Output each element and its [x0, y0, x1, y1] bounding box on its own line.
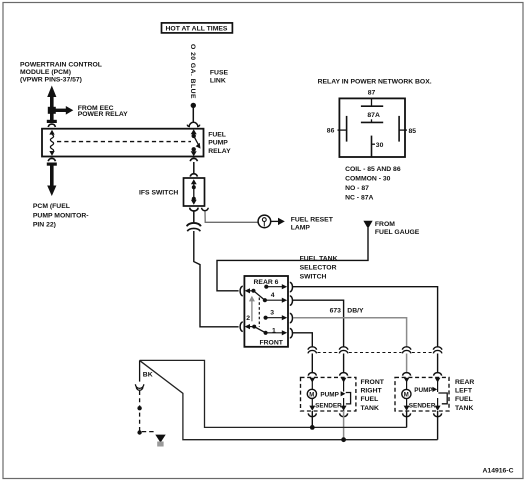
relay switch contact (right, inside box) [191, 129, 201, 156]
wire: pin6 to rear tank sender [293, 287, 438, 347]
svg-text:LAMP: LAMP [291, 225, 311, 232]
wire: branch arrow FROM EEC POWER RELAY [53, 106, 73, 115]
svg-text:RELAY: RELAY [208, 148, 231, 155]
relay coil (left, inside box) [49, 130, 54, 156]
svg-text:PUMP MONITOR-: PUMP MONITOR- [33, 212, 89, 219]
connector: relay output below box [190, 158, 197, 161]
svg-text:COIL - 85 AND 86: COIL - 85 AND 86 [345, 166, 401, 173]
pump motor M (front) [311, 381, 313, 389]
svg-text:1: 1 [272, 328, 276, 335]
svg-text:30: 30 [376, 142, 384, 149]
svg-text:M: M [404, 393, 409, 399]
wire: pin4 to front tank sender [293, 300, 344, 347]
IFS switch S1 box [184, 178, 205, 206]
lamp: fuel reset lamp [258, 215, 271, 228]
wire: pump feed to selector [194, 231, 239, 327]
svg-text:HOT AT ALL TIMES: HOT AT ALL TIMES [166, 26, 228, 33]
pin lines to right edge with arrows [266, 286, 283, 288]
connector: lamp branch tap [202, 208, 209, 211]
svg-text:NO - 87: NO - 87 [345, 185, 369, 192]
svg-text:85: 85 [409, 128, 417, 135]
svg-text:POWER RELAY: POWER RELAY [78, 111, 128, 118]
connectors at tank box top [308, 373, 441, 376]
wire: relay to IFS switch [193, 162, 195, 173]
fuel pump relay K1 box [42, 129, 204, 157]
connector: inline pair on pump feed [187, 223, 201, 226]
ground G1 [155, 435, 165, 443]
svg-text:SELECTOR: SELECTOR [300, 265, 337, 272]
wire: BK ground lead (dashed) [139, 360, 141, 381]
wire: branch to fuel reset lamp [205, 212, 258, 223]
svg-text:SENDER: SENDER [409, 403, 436, 410]
wire: pin3 673 DB/Y to rear tank pump (gray) [293, 318, 407, 347]
blades [252, 289, 256, 293]
svg-text:DB/Y: DB/Y [347, 308, 364, 315]
ground bus 2 (senders, diagonal) [140, 361, 438, 440]
svg-text:FUSE: FUSE [210, 70, 229, 77]
relay pinout legend (power network box) [318, 79, 432, 202]
svg-text:REAR: REAR [455, 379, 474, 386]
from fuel gauge arrow [363, 221, 372, 229]
fuse link F1 [187, 122, 199, 126]
wire: thick arrow to PCM (up) [47, 86, 56, 124]
svg-text:RIGHT: RIGHT [361, 387, 383, 394]
fuel tank selector switch S2 [240, 276, 292, 347]
node: pump ground junction [310, 425, 315, 430]
wire: pin1 to front tank pump [293, 333, 312, 347]
sender (front) [341, 391, 346, 396]
wire: junction to fuse link [192, 105, 194, 122]
connector: PCM monitor lead below relay box [48, 158, 55, 161]
svg-text:FUEL: FUEL [361, 396, 379, 403]
pump motor M (rear) [406, 381, 408, 389]
svg-text:(VPWR PINS-37/57): (VPWR PINS-37/57) [20, 77, 82, 84]
svg-text:IFS SWITCH: IFS SWITCH [139, 189, 178, 196]
connectors at tank box bottom [308, 413, 441, 416]
rear left fuel tank box [395, 377, 449, 411]
svg-text:FUEL TANK: FUEL TANK [300, 256, 338, 263]
relay internal dashed link [57, 141, 191, 143]
svg-text:87A: 87A [367, 112, 380, 119]
svg-text:COMMON - 30: COMMON - 30 [345, 176, 391, 183]
svg-text:RELAY IN POWER NETWORK BOX.: RELAY IN POWER NETWORK BOX. [318, 79, 432, 86]
mechanical dashed link [258, 298, 260, 328]
wire+arrow after lamp [271, 220, 279, 222]
svg-text:POWERTRAIN CONTROL: POWERTRAIN CONTROL [20, 62, 102, 69]
sender (rear) [432, 387, 437, 392]
connector: PCM lead at relay box top [47, 120, 57, 123]
svg-text:SWITCH: SWITCH [300, 274, 327, 281]
svg-text:FRONT: FRONT [260, 340, 284, 347]
svg-text:NC - 87A: NC - 87A [345, 195, 373, 202]
svg-text:BK: BK [143, 371, 153, 378]
pin 30 [371, 136, 373, 157]
front right fuel tank box [301, 377, 356, 411]
svg-text:PCM (FUEL: PCM (FUEL [33, 203, 70, 210]
svg-text:MODULE (PCM): MODULE (PCM) [20, 69, 71, 76]
svg-text:LEFT: LEFT [455, 387, 473, 394]
left terminal arcs [240, 286, 243, 295]
movement arrow (gray) [251, 300, 253, 321]
svg-text:TANK: TANK [361, 405, 379, 412]
contacts 6 and 3 [264, 285, 268, 289]
svg-text:O 20 GA. BLUE: O 20 GA. BLUE [189, 44, 196, 99]
svg-text:86: 86 [327, 128, 335, 135]
svg-text:4: 4 [271, 292, 275, 299]
node: sender ground junction [341, 437, 346, 442]
svg-text:FUEL: FUEL [455, 396, 473, 403]
svg-text:PUMP: PUMP [414, 387, 433, 394]
svg-text:SENDER: SENDER [315, 403, 342, 410]
svg-text:FUEL RESET: FUEL RESET [291, 217, 334, 224]
svg-text:FUEL GAUGE: FUEL GAUGE [375, 229, 420, 236]
svg-text:FUEL: FUEL [208, 132, 226, 139]
svg-text:TANK: TANK [455, 405, 473, 412]
svg-text:3: 3 [270, 309, 274, 316]
left terminal leads with arrows [248, 290, 254, 292]
svg-text:PUMP: PUMP [320, 391, 339, 398]
node: splice junction [191, 103, 196, 108]
right terminal arcs [290, 282, 293, 291]
svg-text:M: M [309, 392, 314, 398]
wire: IFS down [193, 212, 195, 223]
wires: connectors down to tank boxes [311, 354, 313, 373]
svg-text:87: 87 [368, 90, 376, 97]
connector row: harness inline connectors [308, 347, 442, 354]
HOT AT ALL TIMES box [162, 23, 233, 33]
wires: tank outputs to ground buses [311, 411, 313, 427]
connector: IFS bottom [190, 208, 198, 211]
wire: thick arrow down to PCM pin22 [47, 163, 57, 197]
connector: IFS top [190, 174, 197, 177]
svg-text:LINK: LINK [210, 78, 226, 85]
pin 85 [398, 116, 400, 142]
svg-text:A14916-C: A14916-C [483, 468, 514, 475]
ground bus 1 (pumps) [140, 360, 407, 427]
svg-text:2: 2 [246, 315, 250, 322]
wire: fuel gauge to selector top-left terminal [217, 228, 368, 291]
svg-text:673: 673 [330, 308, 342, 315]
svg-text:FRONT: FRONT [361, 379, 385, 386]
svg-text:PIN 22): PIN 22) [33, 222, 56, 229]
svg-text:PUMP: PUMP [208, 140, 228, 147]
svg-text:FROM: FROM [375, 221, 395, 228]
